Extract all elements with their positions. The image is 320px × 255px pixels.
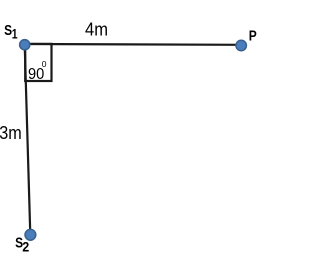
- svg-text:0: 0: [42, 59, 47, 69]
- svg-text:3m: 3m: [0, 123, 22, 143]
- wire S1-S2 (vertical segment, 3m): [25, 45, 31, 235]
- wire S1-P (horizontal segment, 4m): [25, 43, 242, 46]
- svg-text:2: 2: [22, 239, 29, 254]
- svg-text:1: 1: [12, 27, 18, 42]
- node S2 dot: [25, 229, 36, 240]
- svg-text:P: P: [249, 28, 257, 45]
- node P dot: [236, 40, 246, 50]
- svg-text:4m: 4m: [85, 20, 108, 40]
- right-angle marker rectangle at S1: [25, 44, 51, 81]
- node S1 dot: [20, 40, 30, 50]
